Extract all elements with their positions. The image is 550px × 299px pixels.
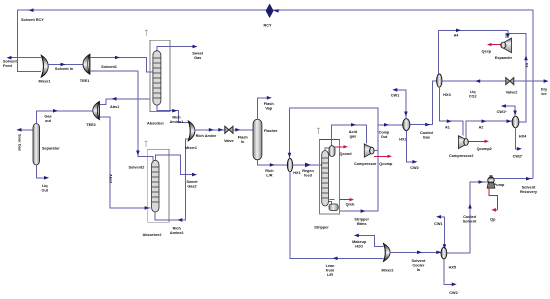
svg-text:CW1*: CW1* xyxy=(497,110,507,114)
stream Liq Out xyxy=(36,165,49,180)
wire Solvent In (Mixer1 to TEE1) xyxy=(48,63,83,67)
stream Makeup H2O xyxy=(354,234,384,247)
svg-text:Qcond: Qcond xyxy=(339,152,352,156)
svg-text:gas: gas xyxy=(350,135,357,139)
svg-text:Abs2: Abs2 xyxy=(109,174,113,183)
wire Flash In (Valve to Flasher) xyxy=(233,128,253,132)
wire A4 (Expander to HX3) xyxy=(439,29,510,75)
svg-text:Cooled: Cooled xyxy=(420,131,434,135)
anchor tick Absorber xyxy=(145,30,148,37)
svg-text:Amine2: Amine2 xyxy=(170,231,184,235)
svg-text:H2O: H2O xyxy=(355,245,363,249)
svg-text:Absorber2: Absorber2 xyxy=(143,233,162,237)
svg-text:Solvent1: Solvent1 xyxy=(101,65,117,69)
wire Lean from L/R (HX1 to Mixer2) xyxy=(290,172,383,260)
svg-text:Mixer1: Mixer1 xyxy=(38,80,50,84)
wire A2 (Compress2 to HX4) xyxy=(466,119,512,138)
svg-text:Cooler: Cooler xyxy=(412,264,425,268)
energy stream Qexp xyxy=(487,43,501,46)
column boundary Absorber2 xyxy=(148,149,169,222)
wire Liq CO2 (HX3 to Valve2) xyxy=(442,79,506,83)
column boundary Absorber xyxy=(150,40,170,111)
svg-text:Sweet: Sweet xyxy=(192,52,204,56)
expander Expander xyxy=(501,38,512,53)
wire Solvent2 (TEE1 to Absorber2 top) xyxy=(90,71,153,161)
svg-text:Rich: Rich xyxy=(172,115,181,119)
wire Acid gas (condenser to Compressor) xyxy=(332,123,367,146)
svg-text:Vap: Vap xyxy=(265,106,272,110)
tee TEE2 xyxy=(93,102,100,120)
svg-text:CW1: CW1 xyxy=(391,94,399,98)
svg-text:Gas: Gas xyxy=(423,136,430,140)
energy stream Qcond xyxy=(335,145,348,148)
svg-text:TEE1: TEE1 xyxy=(80,79,90,83)
svg-text:HX3: HX3 xyxy=(443,93,450,97)
svg-text:out: out xyxy=(45,119,52,123)
wire Solvent Recovery (Pump outlet) xyxy=(494,177,533,181)
compressor Compressor xyxy=(364,144,374,157)
svg-text:Dry: Dry xyxy=(541,87,548,91)
svg-text:Solvent2: Solvent2 xyxy=(129,165,145,169)
svg-text:Out: Out xyxy=(381,135,388,139)
svg-text:Stripper: Stripper xyxy=(354,218,369,222)
tower Absorber xyxy=(153,51,161,105)
mixer Mixer3 (rich amine mixer) xyxy=(188,121,195,141)
wire Cooled Gas (HX2 to HX3) xyxy=(410,81,437,126)
svg-text:Cooled: Cooled xyxy=(463,215,477,219)
svg-text:Valve2: Valve2 xyxy=(506,91,518,95)
svg-text:CW1: CW1 xyxy=(434,222,442,226)
svg-text:Separator: Separator xyxy=(42,147,60,151)
tee TEE1 xyxy=(83,54,90,74)
svg-text:Regen: Regen xyxy=(302,169,314,173)
tower Absorber2 xyxy=(152,160,159,212)
wire Abs2 (TEE2 to Absorber2 bottom) xyxy=(99,117,150,210)
svg-text:Gas: Gas xyxy=(194,56,201,60)
recycle RCY xyxy=(266,4,273,17)
svg-text:Solvent: Solvent xyxy=(412,259,426,263)
stream CW2 from HX5 xyxy=(444,259,457,286)
svg-text:HX5: HX5 xyxy=(449,266,456,270)
reboiler of Stripper xyxy=(328,202,338,211)
wire Rich Amine (Mixer to Valve) xyxy=(195,128,225,132)
svg-text:CW2: CW2 xyxy=(449,291,457,295)
wire Solvent Cooler In (Mixer2 to HX5) xyxy=(390,251,441,255)
wire Solvent RCY recycle top line xyxy=(18,8,267,71)
stream Dry Ice xyxy=(514,79,549,83)
stream Sweet Gas xyxy=(157,45,198,51)
svg-text:RCY: RCY xyxy=(263,24,271,28)
svg-text:Flash: Flash xyxy=(264,102,275,106)
stream Sour Gas xyxy=(17,128,34,132)
svg-text:Expander: Expander xyxy=(495,56,513,60)
svg-text:HX2: HX2 xyxy=(399,138,406,142)
svg-text:Feed: Feed xyxy=(3,64,13,68)
heat-exchanger HX3 xyxy=(437,74,442,87)
wire Cooled Solvent (HX5 to Pump) xyxy=(447,180,488,253)
svg-text:Liq: Liq xyxy=(470,90,476,94)
anchor tick Stripper xyxy=(317,128,320,135)
svg-text:A1: A1 xyxy=(445,126,450,130)
svg-text:CW2*: CW2* xyxy=(513,154,523,158)
svg-text:Recovery: Recovery xyxy=(520,190,538,194)
wire Comp Out (Compressor to HX2) xyxy=(374,123,403,151)
svg-text:A2: A2 xyxy=(479,126,484,130)
column boundary Stripper xyxy=(319,140,339,215)
svg-text:HX1: HX1 xyxy=(293,171,300,175)
svg-text:Solvent RCY: Solvent RCY xyxy=(21,18,44,22)
svg-text:Gas2: Gas2 xyxy=(187,184,196,188)
heat-exchanger HX2 xyxy=(403,119,410,131)
svg-text:Mixer1: Mixer1 xyxy=(185,146,197,150)
svg-text:Absorber: Absorber xyxy=(147,122,164,126)
wire Regen feed (HX1 to Stripper) xyxy=(293,163,322,168)
svg-text:Abs1: Abs1 xyxy=(110,105,119,109)
svg-text:Rich: Rich xyxy=(173,226,182,230)
energy stream Qreb xyxy=(330,198,355,201)
svg-text:R: R xyxy=(268,9,271,13)
wire A3 (HX4 to Expander) xyxy=(506,33,528,121)
svg-text:Qcomp2: Qcomp2 xyxy=(477,147,492,151)
tower Stripper xyxy=(322,151,329,207)
energy stream Qcomp xyxy=(374,155,392,158)
svg-text:Qcomp: Qcomp xyxy=(379,162,393,166)
svg-text:Liq: Liq xyxy=(42,184,48,188)
heat-exchanger HX5 xyxy=(441,247,447,259)
svg-text:A3: A3 xyxy=(525,63,529,68)
svg-text:Pump: Pump xyxy=(494,183,505,187)
svg-text:Mixer2: Mixer2 xyxy=(381,268,393,272)
svg-text:Amine1: Amine1 xyxy=(170,120,184,124)
svg-text:L/R: L/R xyxy=(327,273,333,277)
pump Pump xyxy=(487,175,495,188)
svg-text:Valve: Valve xyxy=(224,139,234,143)
svg-text:Gas: Gas xyxy=(44,114,51,118)
stream CW1 into HX2 xyxy=(392,88,407,119)
stream Flash Vap xyxy=(257,96,271,119)
energy stream Qcomp2 xyxy=(468,140,489,143)
separator Flasher xyxy=(253,119,262,160)
svg-text:TEE2: TEE2 xyxy=(86,123,96,127)
wire Solvent1 (TEE1 to Absorber top) xyxy=(90,56,153,72)
stream CW2 from HX2 xyxy=(406,131,417,164)
svg-text:Comp: Comp xyxy=(379,131,390,135)
stream CW2* from HX4 xyxy=(516,128,522,151)
energy stream Qp xyxy=(489,188,497,212)
wire Stripper Btms (Stripper to HX1 hot side) xyxy=(288,108,378,213)
stream CW1 into HX5 xyxy=(436,215,446,249)
wire Abs1 (TEE2 to Absorber bottom) xyxy=(99,97,150,105)
svg-text:feed: feed xyxy=(304,174,312,178)
svg-text:Ice: Ice xyxy=(541,92,546,96)
stream CW1* into HX4 xyxy=(501,104,517,116)
svg-text:Solvent: Solvent xyxy=(463,220,477,224)
svg-text:Flasher: Flasher xyxy=(264,129,278,133)
svg-text:Solvent: Solvent xyxy=(3,60,17,64)
wire Sweet Gas2 xyxy=(155,155,197,177)
heat-exchanger HX1 xyxy=(287,159,292,172)
wire Solvent Recovery riser (pump to RCY) xyxy=(273,9,533,179)
compressor Compress2 xyxy=(458,136,468,149)
svg-text:Rich: Rich xyxy=(265,169,274,173)
wire Rich L/R (Flasher to HX1) xyxy=(257,160,287,167)
svg-text:Qreb: Qreb xyxy=(346,203,356,207)
svg-text:Out: Out xyxy=(42,188,49,192)
svg-text:CW2: CW2 xyxy=(410,166,418,170)
svg-text:from: from xyxy=(326,269,335,273)
separator Separator xyxy=(33,124,40,166)
svg-text:Qexp: Qexp xyxy=(482,49,492,53)
svg-text:Qp: Qp xyxy=(490,217,496,221)
mixer Mixer1 xyxy=(41,55,48,77)
svg-text:Solvent In: Solvent In xyxy=(55,67,74,71)
svg-text:Rich Amine: Rich Amine xyxy=(196,134,217,138)
svg-text:Lean: Lean xyxy=(326,264,336,268)
svg-text:HX4: HX4 xyxy=(519,135,527,139)
svg-text:Sweet: Sweet xyxy=(187,180,199,184)
svg-text:Solvent: Solvent xyxy=(522,185,536,189)
svg-text:Makeup: Makeup xyxy=(352,240,367,244)
svg-text:Btms: Btms xyxy=(357,222,367,226)
svg-text:Acid: Acid xyxy=(349,130,358,134)
svg-text:Sour Gas: Sour Gas xyxy=(18,134,22,151)
wire Rich Amine1 (Absorber to Mixer) xyxy=(157,105,189,122)
svg-text:Stripper: Stripper xyxy=(314,226,329,230)
svg-text:CO2: CO2 xyxy=(469,95,477,99)
stream Solvent Feed xyxy=(7,56,42,60)
svg-text:Compressor: Compressor xyxy=(354,162,377,166)
heat-exchanger HX4 xyxy=(512,116,519,127)
wire A1 (HX3 to Compress2) xyxy=(439,87,463,135)
svg-text:Flash: Flash xyxy=(238,135,249,139)
wire Gas out (Separator to TEE2) xyxy=(36,109,93,124)
condenser of Stripper xyxy=(325,146,335,157)
anchor tick Absorber2 xyxy=(145,141,148,148)
valve Valve xyxy=(218,126,233,133)
svg-text:L/R: L/R xyxy=(266,174,272,178)
valve Valve2 xyxy=(506,78,514,85)
wire Rich Amine2 (Absorber2 to Mixer) xyxy=(155,139,188,222)
svg-text:Compressor2: Compressor2 xyxy=(449,154,473,158)
mixer Mixer2 xyxy=(383,243,390,261)
